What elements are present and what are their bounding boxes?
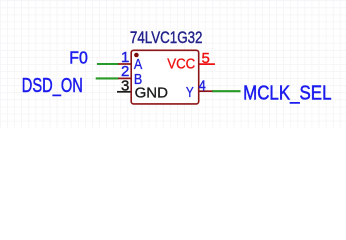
svg-text:VCC: VCC — [167, 55, 195, 72]
svg-text:4: 4 — [199, 78, 206, 95]
svg-text:F0: F0 — [69, 48, 88, 68]
svg-text:GND: GND — [135, 85, 169, 102]
svg-text:74LVC1G32: 74LVC1G32 — [130, 29, 203, 47]
svg-text:5: 5 — [202, 50, 210, 67]
svg-text:Y: Y — [186, 84, 194, 101]
svg-text:MCLK_SEL: MCLK_SEL — [243, 83, 331, 105]
svg-text:DSD_ON: DSD_ON — [22, 75, 83, 97]
svg-text:3: 3 — [121, 77, 129, 94]
